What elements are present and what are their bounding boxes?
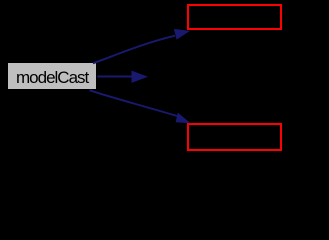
node modelCast [8, 63, 96, 89]
edges [0, 0, 329, 155]
node bottom (red, truncated) [187, 123, 282, 151]
edge to top node [93, 36, 175, 64]
node top (red, truncated) [187, 4, 282, 30]
edge to middle (hidden) node [97, 76, 133, 78]
edge to bottom node [90, 90, 178, 116]
